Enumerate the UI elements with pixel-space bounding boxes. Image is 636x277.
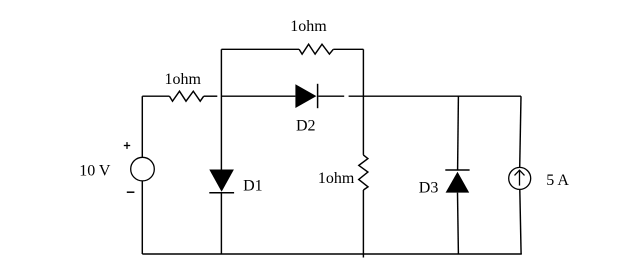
svg-text:D3: D3	[419, 179, 439, 196]
svg-text:D2: D2	[296, 118, 316, 135]
svg-text:10 V: 10 V	[79, 163, 111, 180]
svg-text:1ohm: 1ohm	[318, 170, 355, 187]
svg-text:5 A: 5 A	[546, 172, 569, 189]
svg-text:1ohm: 1ohm	[165, 71, 202, 88]
svg-text:1ohm: 1ohm	[290, 18, 327, 35]
svg-text:D1: D1	[243, 177, 263, 194]
